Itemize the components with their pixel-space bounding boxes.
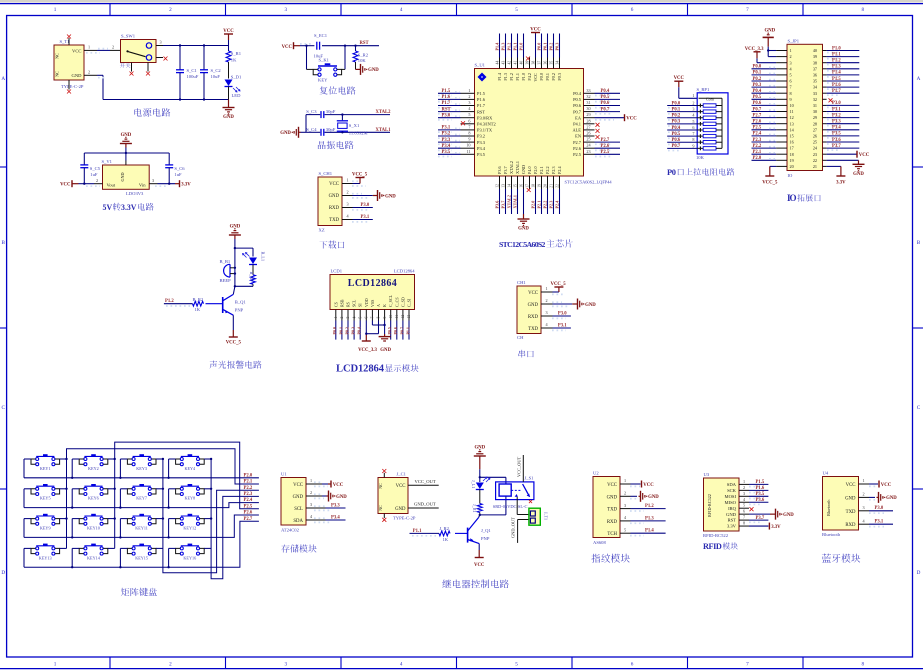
svg-text:VCC: VCC	[643, 483, 654, 488]
svg-text:44: 44	[495, 61, 499, 65]
svg-text:VCC_OUT: VCC_OUT	[415, 479, 436, 484]
emitter wire to VCC	[474, 544, 485, 568]
svg-text:VCC: VCC	[293, 483, 303, 488]
RP1 resistor element 4 / wire net P0.3	[667, 119, 722, 126]
transistor B_Q1 PNP	[223, 294, 247, 315]
wire net P1.2 (IO right)	[827, 59, 860, 65]
IO pin 2 stub	[776, 56, 787, 58]
capacitor S_C4 30pF	[306, 127, 335, 136]
wire net P3.4 (MCU left)	[438, 144, 461, 151]
svg-text:VCC: VCC	[329, 182, 339, 187]
U3 pin 3 net P3.5	[749, 492, 768, 499]
power port VCC (P0 pullup)	[674, 76, 698, 98]
U3 GND pin wire to GND	[749, 509, 794, 520]
svg-text:12: 12	[401, 315, 405, 319]
title 继电器控制电路	[442, 579, 508, 588]
ground GND (relay top)	[474, 446, 486, 478]
IO pin 9 stub	[776, 98, 787, 100]
svg-text:29: 29	[813, 115, 817, 120]
svg-text:GND: GND	[521, 165, 526, 174]
svg-text:P2.7: P2.7	[244, 517, 253, 522]
svg-text:P0: P0	[667, 167, 676, 177]
svg-text:B_R1: B_R1	[249, 272, 254, 282]
key KEY8	[176, 484, 205, 501]
svg-text:1: 1	[54, 7, 57, 13]
junction row bus	[119, 536, 121, 538]
svg-text:26: 26	[586, 131, 590, 136]
IO pin 29 stub	[823, 117, 827, 119]
wire net P3.1 (IO right)	[827, 107, 860, 113]
svg-text:A: A	[1, 76, 5, 82]
connector S_T1 (TYPE-C-2P)	[54, 38, 84, 90]
svg-text:P1.2: P1.2	[832, 59, 841, 64]
KEY5 row hook wire	[24, 489, 31, 508]
svg-text:3: 3	[285, 7, 288, 13]
U3 pin 6	[739, 509, 749, 515]
svg-text:MISO: MISO	[725, 500, 737, 505]
KEY16 column hook wire	[204, 547, 211, 549]
EA wire to VCC	[595, 114, 638, 121]
svg-text:P3.3: P3.3	[477, 140, 486, 145]
svg-text:P3.6: P3.6	[832, 138, 841, 143]
MCU pin 37 (P0.0)	[537, 58, 541, 69]
svg-text:6: 6	[631, 662, 634, 668]
svg-text:9: 9	[468, 137, 470, 142]
wire coil bottom to collector node	[479, 496, 506, 517]
svg-text:RST: RST	[728, 518, 737, 523]
svg-text:KEY10: KEY10	[87, 526, 100, 531]
title 矩阵键盘	[121, 588, 157, 597]
MCU pin 36 (P0.1)	[543, 58, 547, 69]
svg-text:KEY15: KEY15	[135, 555, 148, 560]
wire net P3.4 (IO right)	[827, 126, 860, 132]
LCD pin 2	[340, 310, 344, 321]
svg-text:J_L1: J_L1	[471, 480, 476, 488]
svg-text:A: A	[376, 304, 381, 307]
svg-text:S_V1: S_V1	[102, 159, 113, 164]
IO pin 16 stub	[776, 141, 787, 143]
junction reset right	[344, 45, 346, 47]
svg-text:3.3V: 3.3V	[121, 203, 137, 212]
svg-text:P3.1/TX: P3.1/TX	[477, 128, 493, 133]
IO pin 15 stub	[776, 135, 787, 137]
svg-text:J_R1: J_R1	[472, 504, 477, 513]
wire row1 bus to P2.0	[24, 477, 259, 479]
junction column bus	[210, 458, 212, 460]
svg-text:P1.7: P1.7	[442, 101, 451, 106]
U1 pin 3 net P3.3	[306, 502, 346, 510]
wire net P2.5 (IO left)	[752, 126, 777, 131]
U3 pin 8	[739, 521, 749, 527]
title 电源电路	[134, 108, 170, 117]
wire T1-2 GND return rail	[84, 70, 229, 100]
fingerprint U2 AS608	[593, 471, 620, 545]
svg-text:13: 13	[790, 121, 794, 126]
svg-text:P0.3: P0.3	[753, 83, 762, 88]
svg-text:P3.2: P3.2	[477, 134, 485, 139]
svg-text:P1.1: P1.1	[515, 73, 520, 81]
svg-text:P2.4: P2.4	[244, 498, 253, 503]
pin stub XZ-2 wire to GND	[342, 190, 396, 201]
svg-text:TXD: TXD	[528, 327, 538, 332]
wire net P0.0 (MCU top)	[536, 34, 541, 58]
svg-text:5: 5	[358, 317, 362, 319]
svg-text:37: 37	[813, 66, 817, 71]
wire net P2.3 (MCU bottom)	[548, 189, 553, 214]
svg-text:P1.1: P1.1	[405, 327, 410, 334]
svg-text:2: 2	[96, 178, 98, 183]
svg-text:GND: GND	[72, 73, 83, 78]
svg-text:P0.1: P0.1	[753, 71, 762, 76]
junction bottom rail C1	[179, 98, 181, 100]
ground GND (IO top)	[763, 29, 777, 57]
svg-text:P3.7: P3.7	[832, 144, 841, 149]
svg-text:LCD12864: LCD12864	[394, 269, 415, 274]
svg-text:CS: CS	[333, 302, 338, 307]
svg-text:P2.3: P2.3	[244, 492, 253, 497]
key KEY1	[31, 454, 60, 471]
svg-text:5V: 5V	[103, 203, 113, 212]
svg-text:P2.7: P2.7	[753, 113, 762, 118]
no-ERC on MCU pin 6	[461, 121, 465, 125]
svg-text:P3.1: P3.1	[558, 323, 567, 328]
no-ERC on IO pin 32	[829, 98, 833, 102]
svg-text:GND: GND	[293, 495, 304, 500]
wire net P0.4 (MCU right)	[595, 89, 621, 96]
svg-text:P1.4: P1.4	[645, 529, 654, 534]
svg-text:P3.7: P3.7	[756, 516, 765, 521]
junction relay gnd node	[479, 476, 481, 478]
svg-text:P3.0: P3.0	[361, 203, 370, 208]
svg-text:P2.7: P2.7	[601, 138, 610, 143]
title 声光报警电路	[209, 361, 261, 369]
svg-text:XTAL2: XTAL2	[506, 195, 511, 208]
KEY11 column hook wire	[156, 518, 163, 520]
key KEY5	[31, 484, 60, 501]
wire net P0.2 (MCU top)	[548, 34, 553, 58]
wire row4 bus to P2.7	[24, 521, 259, 567]
no-ERC on MCU pin 17	[527, 188, 531, 192]
svg-text:P3.1: P3.1	[361, 215, 370, 220]
svg-text:P3.5: P3.5	[832, 132, 841, 137]
pin stub S_SW1 pin 2	[110, 45, 121, 51]
svg-text:GND: GND	[120, 172, 125, 181]
svg-text:P1.6: P1.6	[756, 486, 765, 491]
key KEY9	[31, 514, 60, 531]
svg-text:LCD12864: LCD12864	[348, 278, 397, 289]
svg-text:P1.0: P1.0	[518, 43, 523, 51]
LCD pin 12 wire net P0.7	[399, 321, 404, 340]
svg-text:10: 10	[389, 315, 393, 319]
wire net P1.4 (MCU top)	[494, 34, 499, 58]
relay J_S1 SRD-05VDC-SL-C	[493, 476, 534, 509]
wire net P2.6 (MCU right)	[595, 144, 621, 151]
svg-text:J_C1: J_C1	[397, 472, 407, 477]
pin XZ-3 net P3.0	[342, 202, 373, 210]
svg-text:SCL: SCL	[294, 507, 303, 512]
svg-text:P0.4: P0.4	[601, 89, 610, 94]
KEY1 column hook wire	[60, 458, 67, 460]
resistor network S_RP1 10K	[692, 87, 728, 160]
svg-text:2: 2	[88, 70, 90, 75]
svg-text:B_R2: B_R2	[193, 297, 204, 302]
MCU pin 40 (P1.0)	[519, 58, 523, 69]
svg-text:P2.2: P2.2	[753, 144, 762, 149]
RP1 resistor element 7 / wire net P0.6	[667, 137, 722, 144]
svg-text:2: 2	[468, 94, 470, 99]
svg-text:14: 14	[507, 184, 511, 188]
wire net P1.1 (MCU top)	[512, 34, 517, 58]
svg-text:4: 4	[400, 662, 403, 668]
svg-text:VCC: VCC	[223, 29, 234, 34]
wire net P0.1 (IO left)	[752, 71, 777, 76]
connector S_CH1 (download port)	[318, 171, 342, 232]
U3 pin 1 net P1.5	[749, 480, 768, 487]
resistor B_R1 (alarm)	[249, 265, 256, 287]
svg-text:3: 3	[310, 502, 312, 507]
svg-text:P0.4: P0.4	[573, 91, 582, 96]
svg-text:S_CH1: S_CH1	[319, 171, 333, 176]
svg-text:XTAL1: XTAL1	[512, 195, 517, 208]
wire net XTAL1 (MCU bottom)	[512, 189, 517, 214]
svg-text:2: 2	[112, 45, 114, 50]
wire VCC to Vout pin	[79, 178, 103, 186]
no-ERC on MCU pin 27	[596, 129, 600, 133]
junction crystal top	[341, 113, 343, 115]
svg-text:VCC: VCC	[859, 153, 870, 158]
junction buzzer pin2	[234, 272, 236, 274]
svg-text:11.0592M: 11.0592M	[349, 131, 368, 136]
svg-text:3.3V: 3.3V	[181, 183, 191, 188]
wire col4 bus to P2.3	[211, 459, 259, 579]
svg-text:32: 32	[813, 97, 817, 102]
svg-text:22: 22	[555, 184, 559, 188]
svg-text:P0.3: P0.3	[554, 43, 559, 51]
svg-text:17: 17	[790, 146, 794, 151]
wire net P3.0 (IO right)	[827, 101, 860, 107]
IO pin 11 stub	[776, 111, 787, 113]
svg-text:S_C3: S_C3	[306, 109, 317, 114]
key S_K1 (reset button)	[307, 46, 346, 83]
svg-text:3: 3	[159, 40, 161, 45]
svg-text:12: 12	[790, 115, 794, 120]
svg-text:P0.7: P0.7	[573, 109, 582, 114]
title 下载口	[320, 240, 345, 248]
LCD VSS/K wire to GND	[372, 321, 384, 335]
power port VCC (top of power rail)	[223, 29, 234, 46]
svg-text:LCD1: LCD1	[331, 269, 343, 274]
IO pin 18 stub	[776, 153, 787, 155]
wire Vin pin to 3.3V	[149, 178, 175, 186]
svg-text:1K: 1K	[195, 307, 201, 312]
svg-text:1K: 1K	[443, 537, 449, 542]
wire bottom node to collector	[233, 286, 253, 294]
wire net P1.3 (IO right)	[827, 65, 860, 71]
svg-text:27: 27	[813, 127, 817, 132]
svg-text:KEY: KEY	[318, 77, 328, 82]
junction column bus	[162, 488, 164, 490]
svg-text:GND: GND	[336, 495, 347, 500]
svg-text:TYPE-C-2P: TYPE-C-2P	[393, 516, 416, 521]
svg-text:VDD: VDD	[364, 298, 369, 307]
svg-text:38: 38	[813, 60, 817, 65]
svg-text:Com: Com	[706, 97, 715, 102]
svg-text:23: 23	[586, 149, 590, 154]
svg-text:40: 40	[813, 48, 817, 53]
svg-text:P0.4: P0.4	[753, 89, 762, 94]
no-ERC on MCU pin 28	[596, 123, 600, 127]
svg-text:3: 3	[152, 178, 154, 183]
wire net P3.0 (MCU left)	[438, 113, 461, 120]
svg-text:29: 29	[586, 112, 590, 117]
svg-text:1K: 1K	[231, 58, 237, 63]
svg-text:3: 3	[346, 202, 348, 207]
svg-text:VSS: VSS	[370, 300, 375, 307]
wire net P1.3 (MCU top)	[500, 34, 505, 58]
svg-text:VCC_3.3: VCC_3.3	[745, 47, 764, 52]
svg-text:RXD: RXD	[845, 523, 856, 528]
MCU pin 32 (P0.5)	[584, 94, 595, 100]
svg-text:4: 4	[400, 7, 403, 13]
IO pin 40 stub	[823, 50, 827, 52]
capacitor S_C2 10uF	[200, 46, 221, 100]
svg-text:P0.6: P0.6	[573, 103, 582, 108]
bluetooth U4	[822, 471, 859, 537]
svg-text:P3.1: P3.1	[442, 126, 451, 131]
svg-text:P3.4: P3.4	[832, 126, 841, 131]
MCU pin 30 (P0.7)	[584, 106, 595, 112]
svg-text:5: 5	[743, 503, 745, 508]
junction crystal bottom	[341, 131, 343, 133]
svg-text:P2.6: P2.6	[244, 511, 253, 516]
U3 pin 7	[739, 515, 749, 521]
IO pin 21 wire to 3.3V	[827, 166, 847, 185]
RP1 resistor element 6 / wire net P0.5	[667, 131, 722, 138]
CH1 pin 3 net P3.0	[541, 310, 571, 318]
IO pin 23 stub	[823, 153, 827, 155]
capacitor S_C1 100uF	[176, 46, 199, 100]
svg-text:5: 5	[692, 119, 694, 124]
junction alarm top node	[234, 247, 236, 249]
MCU pin 29 (EA)	[584, 112, 595, 118]
junction column bus	[210, 517, 212, 519]
U2 pin 1 wire to VCC	[620, 478, 654, 488]
svg-text:C_SD: C_SD	[400, 297, 405, 307]
svg-text:P1.6: P1.6	[477, 97, 486, 102]
svg-text:STC12C5A60S2_LQFP44: STC12C5A60S2_LQFP44	[565, 179, 613, 184]
svg-text:P0.0: P0.0	[672, 101, 681, 106]
svg-text:3: 3	[468, 100, 470, 105]
svg-text:P0.4: P0.4	[672, 126, 681, 131]
svg-text:P1.2: P1.2	[509, 73, 514, 81]
svg-text:VCC: VCC	[530, 28, 541, 33]
svg-text:SCK: SCK	[727, 488, 737, 493]
KEY8 row hook wire	[169, 489, 176, 508]
power port 3.3V	[175, 180, 191, 187]
svg-text:20: 20	[790, 164, 794, 169]
CH1 pin 1 wire to VCC_5	[541, 282, 566, 294]
wire net P3.6 (IO right)	[827, 138, 860, 144]
IO pin 22 wire to GND	[827, 160, 865, 177]
svg-text:P2.1: P2.1	[539, 166, 544, 174]
svg-text:VCC: VCC	[60, 183, 71, 188]
svg-text:XTAL1: XTAL1	[376, 128, 392, 133]
svg-text:RST: RST	[442, 107, 452, 112]
svg-text:40: 40	[519, 61, 523, 65]
IO pin 7 stub	[776, 86, 787, 88]
svg-text:P0.1: P0.1	[542, 43, 547, 51]
svg-text:VCC: VCC	[396, 484, 406, 489]
svg-text:2: 2	[169, 7, 172, 13]
svg-text:VCC_5: VCC_5	[551, 282, 567, 287]
ground GND (LCD)	[379, 334, 392, 353]
svg-text:P0.6: P0.6	[601, 101, 610, 106]
IO pin 38 stub	[823, 62, 827, 64]
svg-text:P3.4: P3.4	[331, 515, 340, 520]
RP1 resistor element 3 / wire net P0.2	[667, 113, 722, 120]
wire net P1.2 (MCU top)	[506, 34, 511, 58]
svg-text:16: 16	[790, 140, 794, 145]
svg-text:BEEP: BEEP	[220, 278, 232, 283]
junction column bus	[162, 517, 164, 519]
transistor J_Q1 PNP	[468, 518, 492, 544]
IO pin 25 stub	[823, 141, 827, 143]
eeprom U1 AT24C02	[281, 472, 306, 533]
svg-text:P3.2: P3.2	[442, 132, 451, 137]
U3 pin 5	[739, 503, 749, 509]
svg-text:2: 2	[624, 491, 626, 496]
LCD pin 9	[383, 310, 387, 321]
wire net XTAL2 (MCU bottom)	[506, 189, 511, 214]
wire row2 bus to P2.4	[24, 503, 259, 508]
wire net P1.7 (IO right)	[827, 89, 860, 95]
junction row bus	[119, 506, 121, 508]
wire row3 bus to P2.6	[24, 515, 259, 537]
svg-text:8: 8	[377, 317, 381, 319]
svg-text:1: 1	[468, 88, 470, 93]
svg-text:S_X1: S_X1	[349, 123, 360, 128]
svg-text:C: C	[1, 405, 5, 411]
svg-text:13: 13	[501, 184, 505, 188]
wire net P3.7 (IO right)	[827, 144, 860, 150]
svg-text:EN: EN	[575, 134, 582, 139]
svg-text:P3.6: P3.6	[494, 201, 499, 209]
KEY10 row hook wire	[72, 519, 79, 538]
U3 pin 1	[739, 479, 749, 485]
svg-text:P0.0: P0.0	[332, 327, 337, 334]
wire net P0.6 (MCU right)	[595, 101, 621, 108]
title 指纹模块	[591, 554, 629, 563]
svg-text:PNP: PNP	[481, 536, 490, 541]
key KEY14	[79, 544, 108, 561]
IO pin 3 stub	[776, 62, 787, 64]
svg-text:12: 12	[495, 184, 499, 188]
emitter wire to VCC_5	[226, 315, 242, 345]
svg-text:Bluetooth: Bluetooth	[822, 532, 841, 537]
svg-text:GND: GND	[845, 496, 856, 501]
wire net P2.7 (MCU right)	[595, 138, 621, 145]
svg-text:P1.5: P1.5	[477, 91, 486, 96]
svg-text:P2.0: P2.0	[753, 156, 762, 161]
svg-text:GND: GND	[726, 512, 737, 517]
MCU pin 39 (P4.2)	[525, 58, 529, 69]
svg-text:P0.0: P0.0	[753, 65, 762, 70]
svg-text:XTAL2: XTAL2	[376, 110, 392, 115]
svg-text:P1.5: P1.5	[832, 77, 841, 82]
svg-text:7: 7	[743, 515, 745, 520]
junction ldo top	[125, 152, 127, 154]
svg-text:B: B	[1, 240, 5, 246]
